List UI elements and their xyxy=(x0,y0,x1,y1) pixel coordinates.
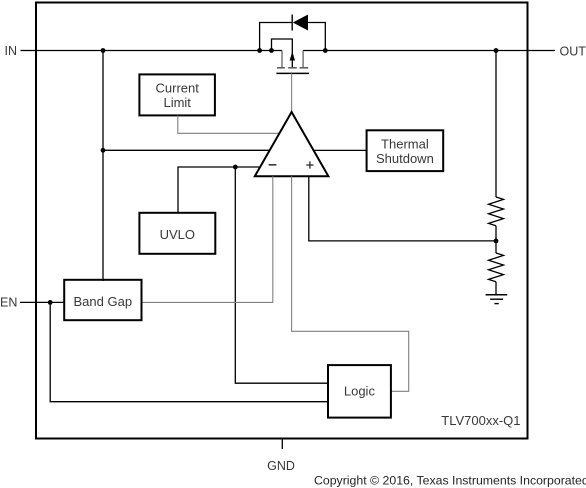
svg-text:Copyright © 2016, Texas Instru: Copyright © 2016, Texas Instruments Inco… xyxy=(314,473,586,487)
wire Band Gap reference to inverting input xyxy=(142,176,273,302)
node junction feedback tap on OUT xyxy=(494,48,499,53)
block Thermal Shutdown xyxy=(367,130,444,171)
block Band Gap xyxy=(64,280,141,320)
node junction diode right on rail xyxy=(323,48,328,53)
body diode D1 cathode bar xyxy=(291,15,293,31)
wire tap down to Logic upper input xyxy=(235,167,328,383)
wire UVLO to amplifier xyxy=(178,167,261,213)
svg-text:OUT: OUT xyxy=(560,45,586,59)
svg-text:GND: GND xyxy=(267,459,295,473)
transistor Q1 source vertical xyxy=(281,51,283,68)
wire IN sense to amplifier xyxy=(103,149,270,151)
wire OUT lead xyxy=(528,50,555,52)
node junction IN sense tap xyxy=(101,148,106,153)
svg-text:EN: EN xyxy=(0,295,17,309)
ground symbol xyxy=(486,295,508,304)
transistor Q1 drain vertical xyxy=(302,51,304,68)
node junction feedback divider tap xyxy=(494,239,499,244)
wire amplifier output to Logic xyxy=(292,176,409,391)
node junction EN tap xyxy=(48,300,53,305)
transistor Q1 bulk contact bar xyxy=(288,67,297,69)
wire OUT rail right segment xyxy=(303,50,528,52)
wire EN lead xyxy=(20,301,64,303)
svg-text:Current: Current xyxy=(156,81,200,96)
wire IN lead xyxy=(21,50,37,52)
body diode D1 wire right vertical xyxy=(308,23,325,51)
wire Current Limit to amplifier xyxy=(178,116,280,134)
resistor R2 xyxy=(489,253,504,282)
transistor Q1 drain contact bar xyxy=(300,67,309,69)
svg-text:UVLO: UVLO xyxy=(160,227,195,242)
body diode D1 anode triangle xyxy=(293,15,308,31)
wire IN rail left segment xyxy=(36,50,282,52)
svg-text:Logic: Logic xyxy=(344,384,376,399)
block UVLO xyxy=(139,213,215,254)
node junction UVLO-Logic tap xyxy=(233,165,238,170)
wire IN vertical bus to Band Gap xyxy=(102,51,104,282)
wire amplifier to Thermal Shutdown xyxy=(314,149,367,151)
block Current Limit xyxy=(139,74,215,115)
block Logic xyxy=(328,365,391,418)
node junction IN-vertical on rail xyxy=(101,48,106,53)
wire R2 to ground xyxy=(495,282,497,295)
transistor Q1 gate bar xyxy=(276,72,309,74)
svg-text:Shutdown: Shutdown xyxy=(376,151,434,166)
svg-text:Thermal: Thermal xyxy=(381,136,429,151)
wire feedback to non-inverting input xyxy=(309,176,496,241)
svg-text:IN: IN xyxy=(5,44,18,58)
IC boundary box U1 xyxy=(36,3,528,439)
body diode D1 wire left vertical xyxy=(260,23,293,51)
op-amp error amplifier xyxy=(255,112,329,176)
node junction diode left on rail xyxy=(257,48,262,53)
wire OUT down to divider xyxy=(495,51,497,198)
transistor Q1 bulk arrow xyxy=(290,52,295,61)
svg-text:TLV700xx-Q1: TLV700xx-Q1 xyxy=(441,413,520,428)
wire divider middle xyxy=(495,226,497,253)
svg-text:Band Gap: Band Gap xyxy=(74,294,133,309)
svg-text:Limit: Limit xyxy=(163,95,191,110)
pin GND tick xyxy=(281,438,283,449)
wire EN to Logic lower input xyxy=(50,302,328,401)
wire gate to amplifier xyxy=(291,73,293,112)
transistor Q1 source contact bar xyxy=(277,67,285,69)
node junction bulk on rail xyxy=(269,48,274,53)
transistor Q1 PMOS bulk wire xyxy=(272,39,293,67)
resistor R1 xyxy=(489,197,504,226)
